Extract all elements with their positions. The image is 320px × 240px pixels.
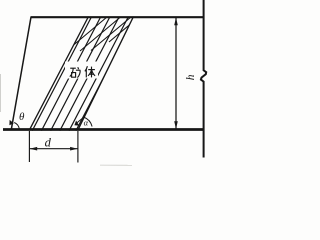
white halo behind ore-body text — [65, 62, 98, 79]
d dimension line — [29, 148, 78, 150]
svg-text:d: d — [45, 136, 52, 150]
h dimension line — [175, 18, 177, 130]
d left arrowhead — [30, 147, 38, 151]
scan noise: faint bottom edge smudge — [100, 164, 132, 166]
theta angle arc with arrowhead — [14, 123, 19, 130]
text 体 (ti) drawn strokes — [85, 66, 95, 77]
h bottom arrowhead — [174, 121, 178, 129]
d right arrowhead — [70, 147, 78, 151]
left slope line — [11, 17, 31, 130]
hatching of ore body (main steep family) — [32, 17, 135, 131]
d dimension extension line left — [28, 131, 30, 162]
svg-text:h: h — [185, 74, 197, 80]
top level line — [31, 16, 205, 18]
svg-text:α: α — [84, 117, 89, 127]
ore body left boundary — [29, 17, 88, 131]
scan noise: faint left edge streak — [0, 74, 2, 112]
right section line with break — [201, 0, 206, 158]
svg-text:θ: θ — [19, 111, 25, 123]
alpha angle arc with arrowhead — [84, 117, 92, 126]
ore body right boundary — [78, 17, 134, 131]
text 矿 (kuang) drawn strokes — [70, 67, 81, 77]
d dimension extension line right — [77, 131, 79, 163]
h top arrowhead — [174, 18, 178, 26]
ground (surface) line — [3, 128, 205, 131]
hatching extra shallow strokes (upper band mesh) — [70, 17, 137, 51]
